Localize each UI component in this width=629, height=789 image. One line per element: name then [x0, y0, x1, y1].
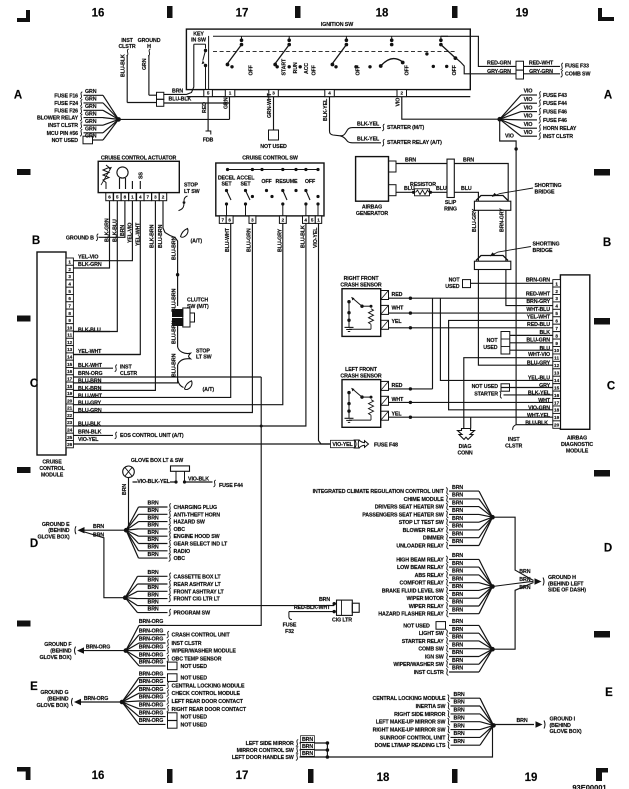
- slip ring: [447, 159, 454, 197]
- svg-text:UNLOADER RELAY: UNLOADER RELAY: [396, 544, 444, 550]
- svg-text:17: 17: [67, 376, 73, 381]
- svg-text:CRASH SENSOR: CRASH SENSOR: [340, 283, 382, 289]
- svg-text:1: 1: [131, 195, 134, 200]
- svg-text:NOT USED: NOT USED: [472, 384, 499, 390]
- svg-text:RED-GRN: RED-GRN: [487, 61, 511, 67]
- wire BRN slip ring right: [454, 164, 508, 202]
- svg-text:START: START: [281, 58, 287, 76]
- svg-text:NOT USED: NOT USED: [181, 715, 208, 721]
- svg-text:YEL: YEL: [392, 411, 403, 417]
- svg-text:E: E: [605, 687, 613, 699]
- svg-text:18: 18: [376, 8, 389, 20]
- svg-text:E: E: [30, 681, 38, 693]
- svg-text:LEFT MAKE-UP MIRROR SW: LEFT MAKE-UP MIRROR SW: [376, 720, 446, 726]
- svg-text:GLOVE BOX): GLOVE BOX): [550, 729, 582, 735]
- border corner bottom-right: [596, 768, 608, 781]
- svg-text:GRN: GRN: [85, 104, 97, 110]
- svg-text:2: 2: [162, 195, 165, 200]
- vertical BRN-ORG to ground F: [148, 377, 261, 625]
- svg-text:CIG LTR: CIG LTR: [332, 618, 352, 624]
- svg-text:CHIME MODULE: CHIME MODULE: [404, 497, 445, 503]
- svg-text:BRIDGE: BRIDGE: [533, 248, 553, 254]
- ground E symbol: [78, 527, 85, 533]
- svg-text:BRN: BRN: [122, 484, 128, 495]
- svg-text:BRN: BRN: [172, 89, 183, 95]
- crossover wire v4 pin11 to diag conn: [464, 358, 553, 429]
- svg-text:BRN-ORG: BRN-ORG: [139, 679, 163, 685]
- svg-text:BRN: BRN: [405, 158, 416, 164]
- actuator pin boxes: [106, 193, 113, 201]
- svg-text:GLOVE BOX): GLOVE BOX): [37, 535, 69, 541]
- svg-text:C: C: [607, 381, 615, 393]
- wire VIO-BLK to fuse F44: [185, 481, 213, 483]
- top column ticks: [167, 6, 173, 18]
- wire BLK-YEL fork to starter: [329, 97, 331, 131]
- svg-text:BRN: BRN: [148, 552, 159, 558]
- svg-text:WHT-VIO: WHT-VIO: [528, 352, 550, 358]
- svg-text:NOT USED: NOT USED: [52, 138, 79, 144]
- svg-text:A: A: [604, 90, 612, 102]
- svg-text:GRN: GRN: [142, 58, 148, 70]
- wire BLU slip ring right: [454, 192, 478, 201]
- wire BLU-BLK cc sw pin4 to module pin24: [261, 223, 306, 426]
- svg-text:BLU-BRN: BLU-BRN: [171, 320, 177, 344]
- rf sensor wire YEL to module pin7: [389, 327, 553, 329]
- svg-text:1: 1: [229, 91, 232, 96]
- svg-text:B: B: [603, 237, 611, 249]
- svg-text:9: 9: [68, 318, 71, 323]
- svg-text:BLU-BRN: BLU-BRN: [171, 236, 177, 260]
- svg-text:B: B: [32, 235, 40, 247]
- svg-text:BRN: BRN: [454, 708, 465, 714]
- svg-text:BRN: BRN: [452, 592, 463, 598]
- svg-text:SUNROOF CONTROL UNIT: SUNROOF CONTROL UNIT: [380, 735, 446, 741]
- airbag diagnostic module box: [560, 275, 589, 429]
- svg-text:RED-BLK-WHT: RED-BLK-WHT: [294, 605, 331, 611]
- wire BRN generator to slip ring: [396, 163, 447, 165]
- svg-text:INST: INST: [508, 437, 520, 443]
- svg-text:8: 8: [68, 311, 71, 316]
- svg-text:BRN: BRN: [452, 666, 463, 672]
- border corner top-left: [17, 10, 30, 22]
- svg-text:BLU-GRY: BLU-GRY: [472, 208, 478, 232]
- ground E fan 2: [125, 576, 137, 597]
- svg-text:14: 14: [67, 355, 73, 360]
- svg-text:BRN: BRN: [148, 570, 159, 576]
- lf sensor wire YEL to module pin19: [389, 416, 553, 418]
- svg-text:BLOWER RELAY: BLOWER RELAY: [403, 528, 445, 534]
- svg-text:PROGRAM SW: PROGRAM SW: [174, 611, 211, 617]
- ignition bank 4: [391, 36, 393, 40]
- svg-text:GRY: GRY: [539, 383, 551, 389]
- bottom column ticks: [167, 769, 173, 783]
- svg-text:BRN-ORG: BRN-ORG: [84, 696, 108, 702]
- wires BLU-GRY BRN-GRY between bridges: [477, 210, 479, 261]
- junction dot BLU-BRN: [176, 273, 179, 276]
- rf sensor wire WHT to module pin5: [389, 312, 553, 314]
- svg-text:RED-WHT: RED-WHT: [529, 61, 554, 67]
- svg-text:INST: INST: [120, 364, 132, 370]
- svg-text:YEL-BLU: YEL-BLU: [528, 375, 550, 381]
- wire GRY-GRN from ignition: [456, 58, 516, 74]
- svg-text:FDB: FDB: [203, 138, 214, 144]
- svg-text:H: H: [147, 44, 151, 50]
- border corner bottom-left: [17, 767, 31, 780]
- svg-text:(BEHIND: (BEHIND: [47, 696, 69, 702]
- svg-text:VIO-GRN: VIO-GRN: [528, 405, 550, 411]
- svg-text:BRN: BRN: [148, 585, 159, 591]
- svg-text:(BEHIND: (BEHIND: [50, 649, 72, 655]
- svg-text:NOT USED: NOT USED: [181, 676, 208, 682]
- ground F symbol: [77, 647, 84, 653]
- wire VIO from ignition pin 2: [402, 97, 500, 119]
- wire BRN to ground E node 2: [85, 532, 126, 598]
- svg-text:STARTER RELAY: STARTER RELAY: [402, 639, 445, 645]
- wire BRN-ORG to ground G node: [81, 701, 122, 703]
- svg-text:CLUTCH: CLUTCH: [187, 298, 208, 304]
- svg-text:20: 20: [67, 398, 73, 403]
- svg-text:RIGHT FRONT: RIGHT FRONT: [344, 276, 380, 282]
- ground I symbol: [536, 721, 543, 727]
- svg-text:BRN-ORG: BRN-ORG: [139, 718, 163, 724]
- svg-text:BRN: BRN: [452, 553, 463, 559]
- wire BLK-BRN actuator pin3 to module pin19: [73, 201, 155, 391]
- svg-text:MIRROR CONTROL SW: MIRROR CONTROL SW: [237, 748, 294, 754]
- svg-text:CLSTR: CLSTR: [118, 44, 135, 50]
- glove box switch: [171, 466, 190, 471]
- svg-text:FUSE F44: FUSE F44: [219, 483, 243, 489]
- svg-text:CRASH CONTROL UNIT: CRASH CONTROL UNIT: [172, 633, 231, 639]
- svg-text:13: 13: [554, 371, 560, 376]
- svg-text:VIO: VIO: [524, 97, 533, 103]
- svg-text:INTEGRATED CLIMATE REGULATION: INTEGRATED CLIMATE REGULATION CONTROL UN…: [313, 489, 445, 495]
- svg-text:GROUND E: GROUND E: [42, 522, 70, 528]
- svg-text:WHT-BLU: WHT-BLU: [526, 307, 550, 313]
- svg-text:OBC TEMP SENSOR: OBC TEMP SENSOR: [172, 657, 222, 663]
- svg-text:RADIO: RADIO: [174, 549, 190, 555]
- svg-text:FRONT CIG LTR LT: FRONT CIG LTR LT: [174, 597, 221, 603]
- wire BLU-GRN cc sw pin3 to module pin22: [73, 223, 252, 412]
- key-in switch: [208, 36, 210, 90]
- wire BLU-GRY to module pin12: [478, 270, 552, 366]
- wire BRN actuator pin8 to ground B: [99, 201, 125, 238]
- svg-text:BRN: BRN: [519, 585, 530, 591]
- svg-text:ANTI-THEFT HORN: ANTI-THEFT HORN: [174, 512, 221, 518]
- crossover wire v2 to pin14: [440, 298, 552, 380]
- svg-text:STOP: STOP: [196, 348, 210, 354]
- svg-text:SET: SET: [222, 182, 233, 188]
- svg-text:1: 1: [68, 260, 71, 265]
- svg-text:BLU: BLU: [436, 186, 447, 192]
- svg-text:IGNITION SW: IGNITION SW: [321, 22, 353, 28]
- svg-text:FUSE F24: FUSE F24: [54, 101, 78, 107]
- svg-text:3: 3: [251, 218, 254, 223]
- svg-text:OBC: OBC: [174, 556, 186, 562]
- svg-text:OFF: OFF: [305, 179, 316, 185]
- svg-text:VIO: VIO: [524, 89, 533, 95]
- ignition pin boxes: [204, 90, 213, 97]
- svg-text:BRN: BRN: [454, 723, 465, 729]
- svg-text:MCU PIN #56: MCU PIN #56: [47, 131, 79, 137]
- svg-text:BRN: BRN: [148, 592, 159, 598]
- svg-text:LEFT FRONT: LEFT FRONT: [345, 367, 378, 373]
- svg-text:PASSENGERS SEAT HEATER SW: PASSENGERS SEAT HEATER SW: [362, 512, 444, 518]
- svg-text:COMB SW: COMB SW: [565, 71, 590, 77]
- svg-text:D: D: [604, 543, 612, 555]
- svg-text:NOT USED: NOT USED: [181, 664, 208, 670]
- svg-text:CENTRAL LOCKING MODULE: CENTRAL LOCKING MODULE: [172, 683, 245, 689]
- svg-text:FRONT ASHTRAY LT: FRONT ASHTRAY LT: [174, 589, 225, 595]
- svg-text:DRIVERS SEAT HEATER SW: DRIVERS SEAT HEATER SW: [375, 505, 444, 511]
- svg-text:BRN: BRN: [452, 493, 463, 499]
- svg-text:BRN-ORG: BRN-ORG: [139, 637, 163, 643]
- svg-text:BRN: BRN: [302, 737, 313, 743]
- svg-text:BRN: BRN: [148, 578, 159, 584]
- ground F fan: [126, 625, 139, 650]
- svg-text:AIRBAG: AIRBAG: [362, 205, 382, 211]
- svg-text:BLK: BLK: [539, 330, 550, 336]
- svg-text:FUSE F46: FUSE F46: [543, 110, 567, 116]
- svg-text:RED-BLU: RED-BLU: [527, 322, 550, 328]
- svg-text:SET: SET: [241, 182, 252, 188]
- svg-text:VIO: VIO: [524, 130, 533, 136]
- svg-text:13: 13: [67, 347, 73, 352]
- ground H symbol: [535, 578, 542, 584]
- svg-text:14: 14: [554, 378, 560, 383]
- cruise module pin strip: [66, 258, 73, 265]
- svg-text:BRN-GRY: BRN-GRY: [526, 299, 550, 305]
- svg-text:18: 18: [554, 408, 560, 413]
- svg-text:BRN: BRN: [452, 508, 463, 514]
- svg-text:6: 6: [555, 319, 558, 324]
- svg-text:BLK-GRN: BLK-GRN: [78, 262, 102, 268]
- svg-text:BRN: BRN: [148, 599, 159, 605]
- svg-text:RED: RED: [392, 292, 403, 298]
- svg-text:BLU-GRN: BLU-GRN: [78, 408, 102, 414]
- svg-text:BRN: BRN: [452, 642, 463, 648]
- svg-text:23: 23: [67, 420, 73, 425]
- svg-text:EOS CONTROL UNIT (A/T): EOS CONTROL UNIT (A/T): [120, 433, 184, 439]
- svg-text:BRN: BRN: [148, 508, 159, 514]
- stop lt sw leaf arrow: [178, 347, 191, 365]
- svg-text:20: 20: [554, 423, 560, 428]
- svg-text:BLK-YEL: BLK-YEL: [323, 98, 329, 121]
- A/T leaf arrow 1: [181, 229, 188, 238]
- svg-text:LT SW: LT SW: [184, 189, 200, 195]
- svg-text:HIGH BEAM RELAY: HIGH BEAM RELAY: [396, 557, 444, 563]
- svg-text:6: 6: [68, 296, 71, 301]
- svg-text:GRN: GRN: [85, 119, 97, 125]
- wire BLK-BLU actuator pin5 to module pin11: [73, 201, 117, 332]
- svg-text:GRY-GRN: GRY-GRN: [487, 69, 511, 75]
- A/T leaf arrow 2: [178, 379, 184, 388]
- svg-text:7: 7: [147, 195, 150, 200]
- svg-text:NOT USED: NOT USED: [181, 722, 208, 728]
- wire BLU-BRN actuator pin2 chain: [163, 201, 178, 306]
- svg-text:FUSE F43: FUSE F43: [543, 93, 567, 99]
- svg-text:VIO-BLK: VIO-BLK: [188, 477, 209, 483]
- svg-text:NOT USED: NOT USED: [260, 144, 287, 150]
- svg-text:15: 15: [554, 385, 560, 390]
- right row bars: [594, 169, 610, 176]
- diag conn arrow: [458, 429, 475, 440]
- svg-text:BRN: BRN: [454, 731, 465, 737]
- lf sensor wire WHT to module pin17: [389, 401, 553, 403]
- wire BLU-GRY cc sw pin2 to module pin21: [73, 223, 282, 404]
- svg-text:CASSETTE BOX LT: CASSETTE BOX LT: [174, 574, 222, 580]
- wire BRN glove box lamp to ground E node: [128, 478, 130, 531]
- wire BLK-GRN actuator pin6 to module pin2: [73, 201, 109, 268]
- svg-text:OFF: OFF: [261, 179, 272, 185]
- wire YEL-WHT actuator pin4 to module pin14: [73, 201, 140, 355]
- fuse fan wires: [84, 94, 104, 96]
- airbag module pin strip: [553, 280, 561, 287]
- svg-text:CHARGING PLUG: CHARGING PLUG: [174, 505, 217, 511]
- cc sw contacts: [225, 189, 228, 192]
- svg-text:18: 18: [377, 772, 390, 784]
- svg-text:BLOWER RELAY: BLOWER RELAY: [37, 116, 79, 122]
- svg-text:(BEHIND: (BEHIND: [550, 723, 572, 729]
- svg-text:15: 15: [67, 362, 73, 367]
- svg-text:USED: USED: [483, 345, 498, 351]
- svg-text:WHT: WHT: [538, 398, 551, 404]
- svg-text:BRN-ORG: BRN-ORG: [139, 703, 163, 709]
- svg-text:4: 4: [68, 282, 71, 287]
- svg-text:SLIP: SLIP: [445, 200, 457, 206]
- svg-text:16: 16: [554, 393, 560, 398]
- svg-text:BLU-BLK: BLU-BLK: [78, 422, 101, 428]
- wire BRN to ground E node 1: [85, 529, 127, 531]
- svg-text:LEFT DOOR HANDLE SW: LEFT DOOR HANDLE SW: [232, 755, 294, 761]
- svg-text:BRAKE FLUID LEVEL SW: BRAKE FLUID LEVEL SW: [382, 588, 444, 594]
- wire VIO-YEL cc sw pin1 to fuse F48: [319, 223, 353, 444]
- svg-text:GRN: GRN: [224, 97, 230, 109]
- svg-text:BRN: BRN: [452, 561, 463, 567]
- svg-text:BRN: BRN: [148, 515, 159, 521]
- wire RED to FDB: [207, 97, 209, 131]
- svg-text:BRN: BRN: [452, 569, 463, 575]
- svg-text:GRN: GRN: [85, 89, 97, 95]
- lf sensor wire RED: [389, 388, 433, 390]
- svg-text:(BEHIND: (BEHIND: [48, 528, 70, 534]
- svg-text:4: 4: [328, 91, 331, 96]
- svg-text:(A/T): (A/T): [191, 238, 203, 244]
- ignition pin rail: [186, 96, 470, 98]
- svg-text:RED: RED: [202, 102, 208, 113]
- svg-text:19: 19: [67, 391, 73, 396]
- svg-text:BLK-YEL: BLK-YEL: [528, 391, 551, 397]
- svg-text:CLSTR: CLSTR: [120, 371, 137, 377]
- svg-text:IGN SW: IGN SW: [425, 655, 444, 661]
- svg-text:BRN: BRN: [452, 485, 463, 491]
- svg-text:INST CLSTR: INST CLSTR: [48, 123, 78, 129]
- svg-text:BRN: BRN: [452, 658, 463, 664]
- svg-text:LEFT SIDE MIRROR: LEFT SIDE MIRROR: [246, 741, 294, 747]
- wire GRY-GRN to COMB SW: [524, 73, 561, 75]
- svg-text:22: 22: [67, 413, 73, 418]
- svg-text:CONTROL: CONTROL: [39, 466, 65, 472]
- svg-text:STOP: STOP: [184, 183, 198, 189]
- svg-text:BRN-ORG: BRN-ORG: [78, 371, 102, 377]
- svg-text:BRN: BRN: [93, 532, 104, 538]
- svg-text:BRN-GRY: BRN-GRY: [500, 208, 506, 232]
- svg-text:FUSE: FUSE: [283, 622, 297, 628]
- wire YEL-VIO actuator pin1 to module pin1: [73, 201, 132, 261]
- svg-text:SS: SS: [138, 172, 144, 179]
- svg-text:FUSE F46: FUSE F46: [543, 118, 567, 124]
- svg-text:2: 2: [282, 218, 285, 223]
- wire BRN-GRY to module pin4: [506, 270, 553, 306]
- ground I fan: [480, 698, 494, 725]
- svg-text:BRN: BRN: [463, 158, 474, 164]
- svg-text:BLU: BLU: [404, 186, 415, 192]
- wire BLU-BRN below stop sw: [177, 365, 179, 379]
- svg-text:17: 17: [236, 770, 249, 782]
- svg-text:GROUND H: GROUND H: [548, 575, 576, 581]
- svg-text:3: 3: [68, 274, 71, 279]
- svg-text:BRN-ORG: BRN-ORG: [139, 687, 163, 693]
- svg-text:LEFT REAR DOOR CONTACT: LEFT REAR DOOR CONTACT: [172, 699, 244, 705]
- svg-text:VIO: VIO: [396, 98, 402, 107]
- svg-text:INST CLSTR: INST CLSTR: [543, 134, 573, 140]
- svg-text:6: 6: [108, 195, 111, 200]
- svg-text:WIPER/WASHER MODULE: WIPER/WASHER MODULE: [172, 649, 237, 655]
- svg-text:BLK-BLU: BLK-BLU: [78, 327, 101, 333]
- svg-text:VIO: VIO: [505, 134, 514, 140]
- inst clstr stub: [513, 425, 517, 430]
- svg-text:CONN: CONN: [457, 450, 472, 456]
- trio junction rail: [326, 743, 328, 757]
- ground H rail: [493, 517, 534, 580]
- wire GRN-WHT to NOT USED: [273, 97, 275, 130]
- crossover wire v3 pin6 to pin18: [449, 320, 553, 409]
- svg-text:HAZARD FLASHER RELAY: HAZARD FLASHER RELAY: [378, 612, 444, 618]
- svg-text:4: 4: [304, 218, 307, 223]
- svg-text:BRN-ORG: BRN-ORG: [86, 644, 110, 650]
- svg-text:BRN: BRN: [148, 523, 159, 529]
- svg-text:A: A: [14, 90, 22, 102]
- svg-text:BLK-BRN: BLK-BRN: [78, 386, 102, 392]
- svg-text:BLU-GRY: BLU-GRY: [527, 360, 551, 366]
- svg-text:93E00001: 93E00001: [572, 783, 606, 789]
- ignition internal top rail: [213, 35, 448, 37]
- connector C1 (2-pin): [157, 92, 164, 99]
- svg-text:(A/T): (A/T): [203, 387, 215, 393]
- wire BLU-WHT cc sw pin7 to module pin20: [73, 223, 230, 397]
- svg-text:BRIDGE: BRIDGE: [535, 189, 555, 195]
- svg-text:BLU-WHT: BLU-WHT: [78, 393, 103, 399]
- svg-text:7: 7: [68, 303, 71, 308]
- svg-text:INERTIA SW: INERTIA SW: [416, 704, 446, 710]
- svg-text:ENGINE HOOD SW: ENGINE HOOD SW: [174, 534, 220, 540]
- svg-text:BRN: BRN: [452, 600, 463, 606]
- svg-text:FUSE F26: FUSE F26: [54, 108, 78, 114]
- svg-text:4: 4: [555, 304, 558, 309]
- svg-text:DIAG: DIAG: [459, 444, 472, 450]
- svg-text:5: 5: [68, 289, 71, 294]
- svg-text:BRN: BRN: [452, 531, 463, 537]
- border corner top-right: [598, 8, 614, 21]
- wire VIO-BLK-YEL: [133, 481, 177, 483]
- svg-text:VIO-BLK-YEL: VIO-BLK-YEL: [137, 479, 170, 485]
- svg-text:RED-WHT: RED-WHT: [526, 292, 551, 298]
- svg-text:10: 10: [554, 348, 560, 353]
- svg-text:CHECK CONTROL MODULE: CHECK CONTROL MODULE: [172, 691, 241, 697]
- wire BLU-BLK from INST CLSTR: [126, 49, 128, 56]
- svg-text:GRN: GRN: [85, 97, 97, 103]
- fuse fan node: [116, 117, 121, 122]
- ground E fan 1: [126, 507, 138, 530]
